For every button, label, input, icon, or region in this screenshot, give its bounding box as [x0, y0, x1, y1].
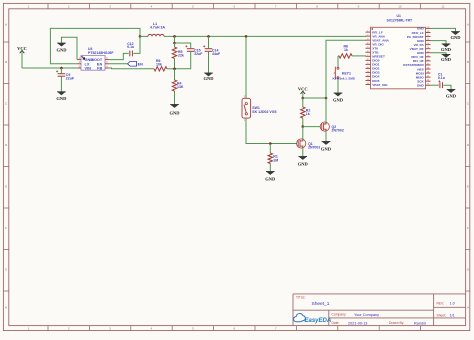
svg-text:6: 6	[233, 327, 235, 331]
svg-text:Drawn By:: Drawn By:	[389, 321, 404, 325]
ground for U4 GND pin	[57, 43, 68, 53]
net flag EN	[109, 62, 143, 67]
wire U1 bottom GND through C1	[431, 84, 439, 86]
svg-text:5: 5	[192, 327, 194, 331]
svg-text:GND: GND	[446, 93, 457, 98]
wire C1 to ground	[444, 85, 452, 89]
svg-text:PT82148HGJ6F: PT82148HGJ6F	[88, 51, 114, 55]
svg-text:FB: FB	[97, 67, 102, 71]
svg-text:A: A	[467, 22, 469, 26]
wire junction to Q1 drain	[302, 127, 304, 139]
node rail junction R5	[173, 35, 176, 38]
svg-text:F: F	[5, 226, 7, 230]
svg-text:0.1u: 0.1u	[127, 45, 134, 49]
svg-text:Company:: Company:	[332, 312, 347, 316]
wire rail to SW1	[245, 36, 247, 98]
node VCC junction	[302, 97, 305, 100]
svg-text:KEY1: KEY1	[342, 71, 351, 75]
svg-text:GND: GND	[417, 84, 425, 88]
ground under C9	[56, 92, 67, 101]
inductor L1 4.7uH 3A	[140, 22, 165, 36]
wire rail to R5/C15 branch	[174, 36, 176, 43]
push button KEY1 K2-6.3x6.1_SMD	[333, 66, 355, 81]
node rail junction C14	[207, 35, 210, 38]
capacitor C1 0.1u	[438, 73, 445, 89]
svg-text:U1: U1	[397, 14, 401, 18]
svg-text:E: E	[467, 184, 469, 188]
svg-text:E: E	[5, 184, 7, 188]
capacitor C9 22uF	[56, 68, 75, 92]
wire branch to C15 top	[175, 43, 191, 48]
svg-text:GND: GND	[333, 98, 344, 103]
wire U1 GND pin4 to ground	[431, 41, 447, 44]
svg-text:Date:: Date:	[332, 321, 340, 325]
svg-text:2N7002: 2N7002	[332, 129, 344, 133]
ground under Q2	[321, 142, 332, 152]
svg-text:EasyEDA: EasyEDA	[305, 318, 332, 324]
wire KEY1 to ground	[337, 80, 339, 93]
svg-text:44uF: 44uF	[212, 52, 221, 56]
IC U1 SX1276IML-TRT	[366, 14, 431, 89]
svg-text:11: 11	[442, 5, 445, 9]
svg-text:4: 4	[151, 5, 153, 9]
svg-text:1: 1	[28, 327, 30, 331]
svg-text:2N7002: 2N7002	[308, 146, 320, 150]
svg-text:D: D	[5, 143, 8, 147]
resistor R6 10k (feedback)	[154, 59, 175, 71]
svg-text:1k: 1k	[344, 48, 348, 52]
svg-text:10: 10	[398, 5, 402, 9]
svg-text:C: C	[5, 101, 8, 105]
wire VBAT_ANA vertical	[326, 40, 366, 122]
ground under C14	[204, 73, 215, 81]
ground right of U1 top	[451, 32, 462, 41]
wire VIN rail	[22, 67, 77, 69]
svg-text:6: 6	[233, 5, 235, 9]
svg-text:Sheet_1: Sheet_1	[312, 301, 330, 307]
svg-text:GND: GND	[56, 96, 67, 101]
svg-text:1.0: 1.0	[450, 302, 455, 306]
node VIN junction	[60, 67, 63, 70]
svg-text:K2-6.3x6.1_SMD: K2-6.3x6.1_SMD	[333, 77, 355, 81]
ground right of U1 mid1	[441, 44, 452, 52]
node R5/C15 top junction	[173, 42, 176, 45]
resistor R5 22k	[172, 43, 184, 69]
svg-text:13K: 13K	[177, 85, 184, 89]
capacitor C14 44uF	[203, 36, 221, 72]
svg-text:10k: 10k	[156, 63, 162, 67]
EasyEDA logo	[294, 314, 332, 324]
svg-text:1k: 1k	[306, 112, 310, 116]
power flag VCC (middle)	[298, 87, 308, 94]
svg-text:GND: GND	[441, 47, 452, 52]
svg-text:5: 5	[192, 5, 194, 9]
wire junction to Q2 gate	[303, 126, 320, 128]
svg-text:B: B	[5, 60, 7, 64]
resistor R4 13K	[172, 69, 184, 105]
svg-text:22k: 22k	[178, 54, 184, 58]
svg-text:VIN: VIN	[85, 67, 92, 71]
svg-text:1M: 1M	[273, 158, 278, 162]
svg-text:7: 7	[275, 327, 277, 331]
wire SW1 to Q1 gate	[246, 118, 297, 143]
svg-text:7: 7	[275, 5, 277, 9]
ground under Q1	[298, 157, 309, 167]
svg-text:F: F	[467, 226, 469, 230]
wire U4 GND pin loop	[62, 37, 78, 59]
wire Q2 source to ground	[325, 131, 327, 141]
ground bottom right of U1	[446, 90, 457, 99]
svg-text:G: G	[5, 267, 8, 271]
svg-text:4.7uH 3A: 4.7uH 3A	[150, 26, 165, 30]
capacitor C12 0.1u bootstrap	[109, 36, 140, 59]
svg-text:G: G	[467, 267, 470, 271]
node R1 junction	[269, 142, 272, 145]
wire R6 to KEY1	[337, 56, 339, 66]
svg-text:GND: GND	[204, 76, 215, 81]
transistor Q2 2N7002	[320, 122, 344, 133]
svg-text:EN: EN	[138, 62, 144, 66]
svg-text:REV:: REV:	[437, 301, 445, 305]
transistor Q1 2N7002	[297, 139, 321, 150]
svg-text:2: 2	[68, 5, 70, 9]
wire U4 FB net	[109, 67, 154, 70]
svg-text:GND: GND	[451, 35, 462, 40]
svg-text:H: H	[5, 305, 7, 309]
wire 3V3 output rail	[164, 35, 366, 37]
svg-text:1: 1	[28, 5, 30, 9]
wire Q1 source to ground	[302, 148, 304, 156]
op... regulator U4 PT82148HGJ6F	[77, 47, 114, 70]
capacitor C15 22uF	[175, 45, 204, 69]
svg-text:VBAT_DIG: VBAT_DIG	[372, 83, 388, 87]
ground under KEY1	[333, 93, 344, 103]
svg-text:Randol: Randol	[414, 322, 426, 326]
svg-text:9: 9	[358, 5, 360, 9]
ground right of U1 mid2	[441, 54, 452, 61]
node L1 input junction	[139, 35, 142, 38]
svg-text:H: H	[467, 305, 469, 309]
svg-text:GND: GND	[265, 177, 276, 182]
svg-text:22uF: 22uF	[194, 52, 203, 56]
svg-text:2021-09-13: 2021-09-13	[348, 322, 367, 326]
ground under R4	[170, 105, 181, 116]
svg-text:Your Company: Your Company	[354, 313, 379, 317]
node FB junction	[173, 68, 176, 71]
svg-text:VCC: VCC	[298, 87, 308, 92]
resistor R2 1k	[301, 98, 311, 127]
svg-text:GND: GND	[57, 48, 68, 53]
svg-text:A: A	[5, 22, 7, 26]
svg-text:3: 3	[109, 5, 111, 9]
svg-text:VCC: VCC	[17, 46, 27, 51]
node VBAT junction	[325, 97, 328, 100]
resistor R1 1M	[268, 144, 278, 172]
wire VCC to R2/Q2	[302, 92, 304, 98]
power flag VCC (left)	[17, 46, 27, 53]
svg-text:3: 3	[109, 327, 111, 331]
ground under R1	[265, 172, 276, 182]
node R2/Q1/Q2-gate junction	[302, 125, 305, 128]
title block	[293, 294, 466, 326]
svg-text:TITLE:: TITLE:	[296, 296, 306, 300]
svg-text:2: 2	[68, 327, 70, 331]
svg-text:4: 4	[151, 327, 153, 331]
node rail junction SW1	[245, 35, 248, 38]
wire VCC node to VBAT line	[303, 97, 326, 99]
wire VCC to VIN rail	[21, 52, 23, 69]
svg-text:B: B	[467, 60, 469, 64]
svg-text:Sheet:: Sheet:	[437, 314, 447, 318]
svg-text:1/1: 1/1	[450, 314, 455, 318]
svg-text:GND: GND	[170, 110, 181, 115]
switch SW1 SK-12D02-VG5	[242, 96, 276, 122]
wire U1 GND pin1 to ground	[431, 28, 456, 31]
resistor R6 1k (NRESET pullup)	[338, 45, 366, 58]
svg-text:0.1u: 0.1u	[438, 76, 445, 80]
svg-text:22uF: 22uF	[66, 77, 75, 81]
svg-text:8: 8	[316, 5, 318, 9]
svg-text:GND: GND	[441, 57, 452, 62]
svg-text:GND: GND	[321, 146, 332, 151]
svg-text:SK 12D02 VG5: SK 12D02 VG5	[252, 110, 276, 114]
wire U4 LX loop to L1	[50, 28, 140, 63]
wire U1 GND pin7 to ground	[431, 53, 447, 54]
svg-text:SX1276IML-TRT: SX1276IML-TRT	[387, 19, 414, 23]
svg-text:GND: GND	[298, 161, 309, 166]
